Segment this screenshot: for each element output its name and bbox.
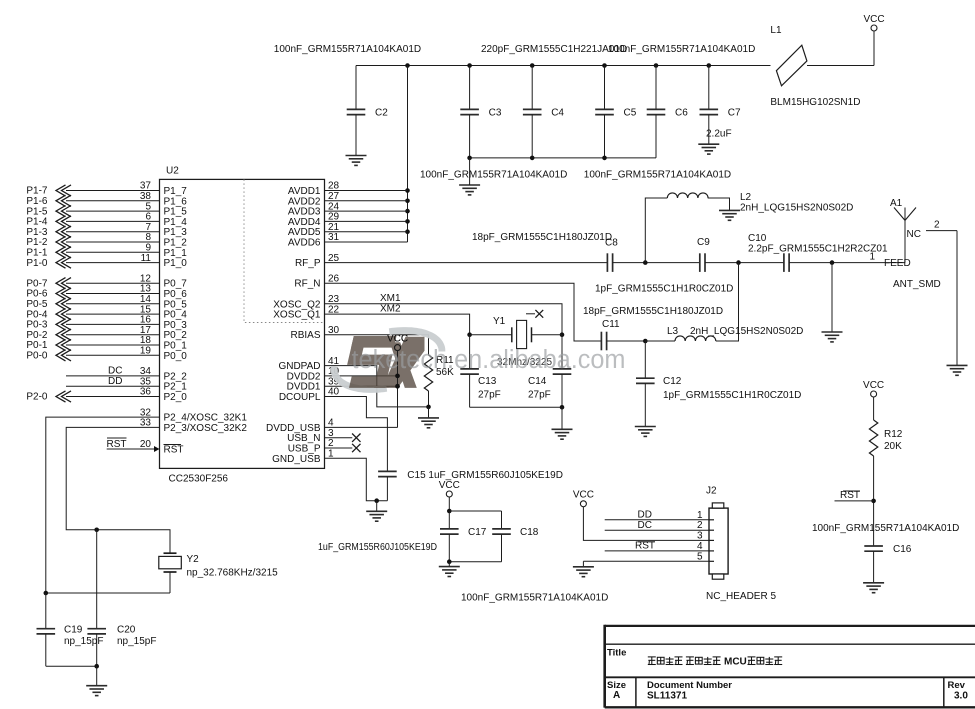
svg-text:C6: C6 (675, 108, 688, 119)
svg-text:np_32.768KHz/3215: np_32.768KHz/3215 (187, 568, 279, 579)
svg-text:3: 3 (697, 530, 703, 541)
svg-text:2.2pF_GRM1555C1H2R2CZ01: 2.2pF_GRM1555C1H2R2CZ01 (748, 244, 888, 255)
svg-text:33: 33 (140, 418, 152, 429)
svg-text:RF_P: RF_P (295, 258, 321, 269)
svg-text:VCC: VCC (863, 14, 884, 25)
svg-text:100nF_GRM155R71A104KA01D: 100nF_GRM155R71A104KA01D (420, 170, 567, 181)
svg-text:11: 11 (141, 253, 152, 264)
svg-text:XM2: XM2 (380, 304, 401, 315)
svg-text:19: 19 (140, 346, 152, 357)
svg-text:U2: U2 (166, 166, 179, 177)
svg-text:VCC: VCC (387, 333, 408, 344)
svg-text:1uF_GRM155R60J105KE19D: 1uF_GRM155R60J105KE19D (318, 542, 437, 553)
svg-text:C5: C5 (624, 108, 637, 119)
svg-text:L3: L3 (667, 326, 679, 337)
svg-text:GND_USB: GND_USB (272, 454, 321, 465)
svg-text:C2: C2 (375, 108, 388, 119)
svg-text:C17: C17 (468, 527, 487, 538)
svg-text:C15 1uF_GRM155R60J105KE19D: C15 1uF_GRM155R60J105KE19D (407, 470, 563, 481)
svg-text:L2: L2 (740, 192, 752, 203)
svg-text:1: 1 (870, 252, 876, 263)
svg-text:27pF: 27pF (528, 390, 551, 401)
svg-text:NC: NC (907, 229, 921, 240)
svg-text:C19: C19 (64, 625, 83, 636)
svg-text:VCC: VCC (863, 380, 884, 391)
svg-text:DD: DD (638, 509, 652, 520)
svg-text:2: 2 (934, 220, 940, 231)
svg-text:AVDD6: AVDD6 (288, 238, 321, 249)
svg-text:SL11371: SL11371 (647, 691, 687, 702)
svg-text:Document Number: Document Number (647, 680, 732, 691)
svg-text:P2_0: P2_0 (164, 392, 188, 403)
svg-text:RST: RST (840, 490, 860, 501)
svg-text:20K: 20K (884, 441, 902, 452)
svg-text:100nF_GRM155R71A104KA01D: 100nF_GRM155R71A104KA01D (812, 523, 959, 534)
svg-text:DC: DC (638, 520, 652, 531)
svg-text:100nF_GRM155R71A104KA01D: 100nF_GRM155R71A104KA01D (274, 44, 421, 55)
svg-text:1pF_GRM1555C1H1R0CZ01D: 1pF_GRM1555C1H1R0CZ01D (595, 284, 733, 295)
svg-text:RBIAS: RBIAS (290, 330, 320, 341)
svg-text:A1: A1 (890, 198, 903, 209)
svg-text:C3: C3 (489, 108, 502, 119)
svg-text:C11: C11 (602, 319, 620, 330)
svg-text:Y2: Y2 (187, 554, 200, 565)
svg-text:C7: C7 (728, 108, 741, 119)
svg-text:FEED: FEED (884, 258, 911, 269)
svg-text:C9: C9 (697, 237, 710, 248)
svg-text:20: 20 (140, 439, 152, 450)
svg-text:P1-0: P1-0 (26, 258, 48, 269)
svg-text:4: 4 (697, 541, 703, 552)
svg-text:2.2uF: 2.2uF (706, 129, 732, 140)
svg-text:P1_0: P1_0 (164, 258, 188, 269)
svg-text:C12: C12 (663, 376, 682, 387)
svg-text:C14: C14 (528, 376, 547, 387)
svg-text:C18: C18 (520, 527, 539, 538)
svg-text:NC_HEADER 5: NC_HEADER 5 (706, 591, 776, 602)
svg-text:teketech.en.alibaba.com: teketech.en.alibaba.com (352, 346, 626, 374)
svg-text:C4: C4 (551, 108, 564, 119)
svg-text:C16: C16 (893, 544, 912, 555)
svg-text:3.0: 3.0 (954, 691, 968, 702)
svg-text:Y1: Y1 (493, 316, 506, 327)
svg-text:220pF_GRM1555C1H221JA01D: 220pF_GRM1555C1H221JA01D (481, 44, 627, 55)
svg-text:C13: C13 (478, 376, 497, 387)
svg-text:R12: R12 (884, 429, 903, 440)
svg-text:C20: C20 (117, 625, 136, 636)
svg-text:RST: RST (164, 445, 184, 456)
svg-text:RF_N: RF_N (294, 279, 320, 290)
svg-text:VCC: VCC (439, 480, 460, 491)
svg-text:RST: RST (107, 439, 127, 450)
svg-text:np_15pF: np_15pF (64, 636, 103, 647)
svg-text:1: 1 (697, 510, 703, 521)
svg-text:A: A (613, 690, 620, 701)
svg-text:MCU: MCU (724, 657, 747, 668)
svg-text:P0-0: P0-0 (26, 351, 48, 362)
svg-text:C10: C10 (748, 233, 767, 244)
svg-text:2nH_LQG15HS2N0S02D: 2nH_LQG15HS2N0S02D (690, 326, 803, 337)
svg-text:DD: DD (108, 376, 122, 387)
svg-text:ANT_SMD: ANT_SMD (893, 279, 941, 290)
svg-text:5: 5 (697, 551, 703, 562)
svg-text:2nH_LQG15HS2N0S02D: 2nH_LQG15HS2N0S02D (740, 203, 853, 214)
svg-text:18pF_GRM1555C1H180JZ01D: 18pF_GRM1555C1H180JZ01D (472, 232, 612, 243)
svg-text:Title: Title (607, 648, 626, 659)
svg-text:P2_3/XOSC_32K2: P2_3/XOSC_32K2 (164, 423, 248, 434)
svg-text:100nF_GRM155R71A104KA01D: 100nF_GRM155R71A104KA01D (461, 593, 608, 604)
svg-text:np_15pF: np_15pF (117, 636, 156, 647)
svg-text:100nF_GRM155R71A104KA01D: 100nF_GRM155R71A104KA01D (608, 44, 755, 55)
svg-text:27pF: 27pF (478, 390, 501, 401)
svg-text:BLM15HG102SN1D: BLM15HG102SN1D (770, 97, 860, 108)
svg-text:DCOUPL: DCOUPL (279, 392, 321, 403)
svg-text:XM1: XM1 (380, 293, 401, 304)
svg-text:Rev: Rev (948, 680, 966, 691)
svg-text:L1: L1 (770, 25, 782, 36)
svg-text:100nF_GRM155R71A104KA01D: 100nF_GRM155R71A104KA01D (584, 170, 731, 181)
svg-text:VCC: VCC (573, 490, 594, 501)
svg-text:18pF_GRM1555C1H180JZ01D: 18pF_GRM1555C1H180JZ01D (583, 306, 723, 317)
svg-text:1pF_GRM1555C1H1R0CZ01D: 1pF_GRM1555C1H1R0CZ01D (663, 390, 801, 401)
svg-text:P2-0: P2-0 (26, 392, 48, 403)
svg-text:36: 36 (140, 387, 152, 398)
svg-text:CC2530F256: CC2530F256 (169, 474, 229, 485)
svg-text:P0_0: P0_0 (164, 351, 188, 362)
svg-text:XOSC_Q1: XOSC_Q1 (273, 310, 321, 321)
svg-text:J2: J2 (706, 486, 717, 497)
